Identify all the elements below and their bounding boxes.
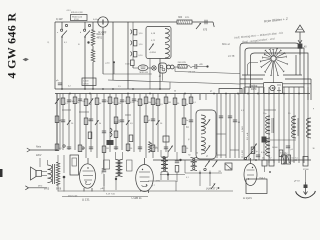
labeled box left	[82, 78, 96, 86]
oscillator coil box	[196, 110, 216, 159]
antenna coil blob	[298, 44, 303, 49]
capacitor C-sub	[188, 66, 193, 68]
svg-text:50: 50	[71, 123, 73, 125]
loom loop outer	[240, 43, 300, 94]
wire left col	[56, 94, 58, 151]
coil circles pair	[167, 65, 171, 69]
coupling cap	[102, 169, 106, 171]
bus mid 1	[55, 88, 170, 90]
svg-text:0,1: 0,1	[65, 103, 68, 105]
switch contacts lower	[246, 151, 253, 158]
svg-text:50: 50	[130, 148, 132, 150]
svg-text:4,4950: 4,4950	[150, 52, 157, 54]
svg-text:μ: μ	[313, 108, 314, 110]
IF T4 core	[163, 158, 165, 171]
wire step loop	[219, 89, 242, 94]
transformer T1 trimmer	[149, 44, 154, 50]
edge mark	[0, 169, 3, 177]
svg-text:1500: 1500	[125, 64, 129, 66]
svg-text:9-19 7.06: 9-19 7.06	[106, 194, 116, 196]
loom hline 4	[245, 86, 263, 88]
svg-text:57000: 57000	[303, 169, 309, 171]
wire row y80	[108, 80, 240, 84]
svg-text:50: 50	[196, 153, 198, 155]
svg-text:495 Ω 0,1W: 495 Ω 0,1W	[71, 12, 84, 14]
tube V3 shield box	[246, 179, 267, 194]
trim right	[252, 144, 257, 150]
ink blot	[23, 58, 29, 61]
svg-text:1M: 1M	[168, 102, 171, 104]
resistor R4	[131, 60, 135, 66]
wire drop x85	[84, 22, 86, 29]
tall box right	[303, 157, 308, 167]
wire starburst to drehko	[273, 61, 275, 83]
coil L7	[307, 118, 311, 138]
oscillator coil L3	[201, 115, 205, 134]
bus junction dots	[61, 88, 63, 90]
svg-text:Δ 131: Δ 131	[82, 197, 90, 201]
note heading	[264, 17, 289, 24]
component row 1	[55, 98, 59, 104]
elco boxes	[282, 155, 286, 164]
boxes right mid	[251, 147, 255, 154]
svg-text:0,1: 0,1	[241, 110, 244, 112]
svg-text:μ5: μ5	[148, 120, 150, 122]
fuse oval MOR	[138, 65, 148, 71]
cap on busA	[58, 82, 62, 84]
wire drop x113	[112, 22, 114, 80]
loom hline 2	[240, 78, 263, 80]
bus lower	[153, 159, 311, 161]
svg-text:1,000: 1,000	[83, 80, 89, 82]
wire row y715	[175, 72, 240, 74]
wire drop x62	[61, 22, 63, 29]
choke vertical	[63, 155, 65, 173]
svg-text:0,2: 0,2	[59, 148, 62, 150]
svg-text:μ2: μ2	[210, 91, 212, 93]
wire heater line	[62, 196, 148, 198]
output transformer primary	[48, 165, 52, 183]
switch S2	[84, 29, 86, 31]
switch S1	[61, 29, 63, 31]
IF transformer T4 b	[164, 157, 168, 172]
wire jog y174	[160, 174, 185, 176]
coil small a	[191, 158, 195, 171]
IF box right	[127, 160, 133, 171]
svg-text:44 TB: 44 TB	[228, 55, 235, 58]
svg-text:0500: 0500	[153, 147, 157, 149]
speaker coil	[36, 171, 42, 177]
IF T3 core	[117, 160, 119, 176]
svg-text:1n: 1n	[186, 120, 188, 122]
svg-text:1M: 1M	[88, 104, 91, 106]
IF transformer T4 a	[161, 157, 165, 172]
output transformer secondary	[56, 163, 60, 186]
tube V3 rectifier	[244, 164, 257, 186]
dots right	[283, 163, 285, 165]
coil L5a	[266, 116, 270, 134]
choke L2	[91, 50, 95, 62]
svg-text:70Ω-1/2W: 70Ω-1/2W	[178, 62, 186, 64]
svg-text:02 /: 02 /	[292, 161, 296, 163]
svg-text:0,5: 0,5	[83, 101, 86, 103]
svg-text:Rad.4: Rad.4	[260, 178, 266, 180]
svg-text:30: 30	[313, 148, 315, 150]
bus mid 2	[55, 93, 310, 95]
res right pair	[262, 160, 267, 166]
trimmer bottom 1	[205, 161, 210, 167]
loom loop 2	[245, 48, 304, 94]
svg-text:50k: 50k	[148, 102, 151, 104]
wire T1 to bus	[159, 59, 161, 90]
svg-text:B.1 mA: B.1 mA	[246, 132, 249, 140]
wire osc top	[199, 94, 201, 100]
tube V2 IF amp	[136, 165, 154, 192]
svg-text:2μ: 2μ	[77, 102, 79, 104]
resistor R5 hatch	[178, 65, 187, 69]
extra vcap gap col	[233, 119, 237, 121]
speaker cone	[31, 167, 37, 180]
oscillator coil L4	[201, 137, 205, 154]
svg-text:0,2: 0,2	[68, 86, 71, 88]
svg-text:0,1: 0,1	[142, 104, 145, 106]
lamp crossed	[152, 66, 156, 70]
lamp symbol	[98, 17, 108, 27]
svg-text:10000: 10000	[272, 147, 278, 149]
mains lead 1	[30, 149, 57, 151]
tube V1 output	[80, 164, 96, 188]
svg-text:9705: 9705	[44, 189, 50, 191]
transformer T1 winding b	[165, 44, 169, 58]
ot wires	[47, 160, 49, 165]
trimmer bottom 2	[213, 161, 218, 167]
mains lead 2	[29, 187, 48, 189]
rotary wave switch starburst	[271, 56, 276, 61]
loom hline 3	[240, 83, 263, 85]
IF transformer T3 b	[118, 160, 122, 177]
svg-text:Netz-Dr: Netz-Dr	[97, 33, 105, 36]
svg-text:4,7: 4,7	[268, 156, 271, 158]
osc bottom marks	[163, 156, 165, 158]
IF T3 bottom	[115, 178, 117, 180]
choke L1 heater	[92, 22, 94, 30]
hline mid right	[264, 109, 276, 111]
svg-text:30: 30	[99, 103, 101, 105]
svg-text:497Ω: 497Ω	[97, 38, 103, 40]
svg-text:wtΩ 4-W: wtΩ 4-W	[188, 71, 195, 74]
RC snubber 1	[131, 30, 132, 35]
loom loop 3	[251, 53, 309, 100]
svg-text:0,5: 0,5	[160, 104, 163, 106]
RC snubber 3	[131, 52, 132, 57]
cap right small	[256, 154, 260, 156]
coil small b	[193, 158, 197, 171]
svg-text:0,1: 0,1	[186, 177, 189, 179]
svg-text:μF 18: μF 18	[294, 181, 300, 183]
note line 2	[242, 37, 275, 44]
antenna	[296, 25, 305, 32]
svg-text:4970: 4970	[38, 186, 42, 188]
wire top bus	[55, 21, 177, 23]
svg-text:Δ 1(2/1: Δ 1(2/1	[243, 196, 252, 200]
wire loom right drop	[295, 55, 297, 75]
svg-text:3k: 3k	[99, 123, 101, 125]
svg-text:50: 50	[174, 91, 176, 93]
IF box left	[104, 160, 110, 169]
loom hline 1	[242, 74, 265, 76]
oscillator trimmer 1	[206, 119, 210, 125]
component rows 2-3	[55, 116, 59, 123]
svg-text:1,5kΩ: 1,5kΩ	[242, 126, 244, 132]
cap res after T4	[175, 160, 179, 162]
svg-text:30: 30	[177, 103, 179, 105]
coil L5b	[266, 138, 270, 156]
svg-text:50+50μ: 50+50μ	[280, 153, 288, 155]
svg-text:Widerstand: Widerstand	[72, 15, 82, 18]
anchor lead	[305, 170, 307, 182]
svg-text:PL 1,8Ω: PL 1,8Ω	[242, 150, 244, 158]
svg-text:50: 50	[160, 123, 162, 125]
loom corner path	[248, 63, 259, 76]
svg-text:220V: 220V	[36, 155, 42, 157]
wire oval-lamp	[148, 67, 152, 69]
svg-text:0,1m: 0,1m	[261, 152, 266, 154]
tuning capacitor Drehko	[264, 83, 283, 94]
trimmer far bottom	[211, 183, 215, 189]
svg-text:μ4: μ4	[206, 156, 208, 158]
transformer T1 box	[146, 27, 171, 59]
box small right mid	[225, 163, 232, 170]
svg-text:3: 3	[216, 153, 217, 155]
wire row y74	[103, 73, 152, 75]
bus bottom	[58, 190, 233, 192]
svg-text:9706: 9706	[56, 189, 62, 191]
oscillator trimmer 2	[206, 145, 210, 151]
wire box right	[174, 66, 178, 68]
IF transformer T3 a	[116, 160, 120, 177]
capacitor C-top and end hook	[196, 23, 201, 29]
antenna lead	[299, 32, 301, 44]
wire jog y181	[148, 180, 176, 182]
svg-text:1,5: 1,5	[118, 86, 121, 88]
svg-text:1μ: 1μ	[256, 151, 258, 153]
svg-text:μ3: μ3	[291, 149, 293, 151]
transformer T1 winding a	[165, 29, 169, 43]
svg-text:Netz: Netz	[36, 146, 42, 149]
svg-text:2M: 2M	[106, 148, 109, 150]
wire drop x103	[102, 27, 104, 74]
valve box small	[159, 63, 167, 73]
RC snubber 2	[131, 41, 132, 46]
resistor R2 300ohm	[177, 20, 192, 24]
svg-text:Bitte an: Bitte an	[222, 43, 231, 46]
solid blob	[262, 137, 267, 143]
note line 1	[234, 31, 284, 40]
svg-text:(A)9737 2: (A)9737 2	[206, 187, 218, 191]
svg-text:10: 10	[186, 148, 188, 150]
svg-text:5k: 5k	[186, 104, 188, 106]
wire x128 top drop	[127, 22, 129, 89]
svg-text:675: 675	[203, 29, 208, 32]
wire jogs	[62, 109, 71, 111]
svg-text:0,5: 0,5	[130, 123, 133, 125]
speaker leads	[42, 170, 48, 172]
wire bottom mid	[185, 172, 222, 174]
svg-text:10k: 10k	[118, 103, 121, 105]
output transformer core	[52, 164, 54, 184]
svg-text:μ.7: μ.7	[152, 185, 155, 187]
svg-text:4,700: 4,700	[83, 84, 89, 86]
svg-text:300: 300	[178, 16, 183, 19]
svg-text:Ωυ 7υx: Ωυ 7υx	[292, 158, 298, 160]
coil L6	[292, 116, 296, 138]
svg-text:4 GW 646 R: 4 GW 646 R	[5, 13, 19, 79]
wire T1 drop x150	[149, 59, 151, 90]
svg-text:0,1: 0,1	[193, 102, 196, 104]
wire left drop	[54, 22, 56, 89]
anchor symbol	[304, 185, 308, 189]
wire vertical forest	[56, 94, 58, 151]
cap block box	[70, 155, 79, 175]
svg-text:0,1W: 0,1W	[56, 17, 63, 21]
svg-text:0,5M: 0,5M	[130, 102, 135, 104]
